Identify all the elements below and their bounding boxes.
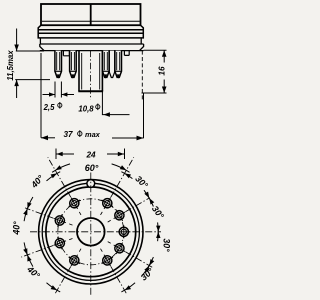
svg-text:37: 37 (63, 130, 73, 139)
contact pin P1 (side view) (55, 51, 62, 79)
side view vertical centerline (dash-dot) (90, 51, 92, 100)
index notch circle at 12 o'clock (87, 180, 95, 188)
dimension 24 line left (56, 153, 74, 155)
hidden edge (dashed) below plate right (141, 51, 143, 101)
angle dimension 60 deg (top) (52, 164, 70, 172)
dimension 11,5max upper segment (16, 29, 18, 52)
angle dimension 30 deg (lower right) (142, 262, 151, 276)
dimension 37 dia max line (41, 137, 55, 139)
center hole circle (77, 218, 105, 246)
seating plane extension line right (144, 49, 167, 51)
radial centerline -70 deg (25, 208, 73, 225)
contact pin P4 (side view) (115, 51, 122, 79)
bottom view outer rim circle (39, 180, 143, 284)
horizontal centerline (30, 231, 161, 233)
socket base plate (40, 44, 144, 51)
angle dimension 40 deg (lower left) (26, 252, 33, 267)
radial centerline -150 deg (55, 249, 81, 295)
socket flange rings (38, 25, 143, 38)
svg-text:24: 24 (85, 150, 96, 159)
contact pin hole 5 (bottom view, 30 deg) (98, 194, 116, 212)
spigot bottom extension line right (142, 92, 167, 94)
angle dimension 40 deg (left) (24, 205, 29, 221)
contact pin hole 6 (bottom view, 60 deg) (110, 206, 128, 224)
center spigot tube (78, 51, 103, 92)
svg-text:60°: 60° (85, 163, 99, 173)
dimension 24 line right (107, 153, 125, 155)
contact pin hole 9 (bottom view, 150 deg) (98, 251, 116, 269)
vertical centerline (90, 173, 92, 296)
contact pin hole 7 (bottom view, 90 deg) (117, 225, 130, 238)
svg-text:30°: 30° (162, 238, 172, 252)
radial centerline 30 deg (101, 157, 134, 215)
socket step band (40, 38, 141, 44)
radial centerline -30 deg (48, 157, 81, 215)
dimension 2,5 dia extension lines (55, 82, 61, 98)
radial centerline -110 deg (21, 239, 72, 258)
dimension 24 extension ticks (56, 149, 125, 160)
pin tip plane extension line left (15, 79, 50, 81)
pin pitch circle (dash-dot) (58, 199, 124, 265)
radial centerline 120 deg (108, 242, 154, 268)
angle dimension 30 deg (right lower) (157, 228, 160, 241)
dimension 2,5 dia arrows (43, 94, 56, 96)
svg-text:40°: 40° (12, 221, 22, 236)
svg-text:max: max (85, 130, 101, 139)
svg-text:16: 16 (157, 66, 166, 76)
angle dimension 30 deg (right upper) (147, 195, 153, 207)
dimension 16 line (163, 50, 165, 93)
socket cap (top body) (41, 4, 141, 25)
bottom view second rim circle (42, 183, 139, 280)
svg-text:2,5: 2,5 (43, 103, 56, 112)
contact pin hole 2 (bottom view, -110 deg) (51, 235, 68, 252)
angle dimension 30 deg (upper right) (121, 172, 132, 179)
seating plane extension line left (16, 50, 44, 52)
angle dimension 40 deg (upper left) (47, 172, 61, 181)
contact pin hole 8 (bottom view, 120 deg) (110, 239, 128, 257)
dimension 37 dia max extension lines (41, 53, 144, 138)
contact pin P2 (side view) (70, 51, 77, 79)
contact pin hole 1 (bottom view, -150 deg) (65, 251, 83, 269)
dimension 11,5max lower segment (16, 80, 18, 98)
pin stub (back row, left) (63, 51, 69, 56)
svg-text:10,8: 10,8 (78, 105, 94, 114)
bottom view plate circle (46, 187, 136, 277)
contact pin (back row, between P3 and P4) (109, 51, 114, 78)
dimension 10,8 dia leader (102, 91, 129, 114)
radial centerline 150 deg (101, 249, 127, 295)
radial centerline 60 deg (108, 198, 150, 222)
pin stub (back row, right) (124, 51, 129, 56)
contact pin hole 3 (bottom view, -70 deg) (51, 212, 68, 229)
contact pin hole 4 (bottom view, -30 deg) (65, 194, 83, 212)
contact pin P3 (side view) (103, 51, 110, 79)
svg-text:11,5max: 11,5max (6, 50, 15, 81)
